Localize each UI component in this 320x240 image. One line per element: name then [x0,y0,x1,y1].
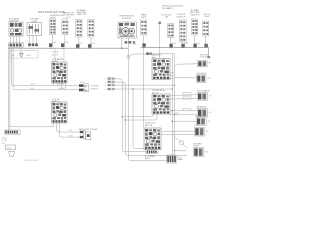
left vertical harness wire 3 [12,48,79,85]
svg-text:ENTRY: ENTRY [141,17,148,19]
riser right 1 [171,54,173,160]
bottom left box [6,145,16,150]
wire R2 to K3 a [170,110,197,112]
svg-text:0.5 L: 0.5 L [31,88,35,90]
svg-text:TO FRONT: TO FRONT [91,85,99,87]
strip T1 [168,24,174,38]
junction dot fan2 branch [125,119,126,120]
svg-text:START SYS: START SYS [77,13,87,16]
door lock assembly block [144,128,161,150]
svg-text:1 G: 1 G [2,143,5,145]
connector marks under J/B [9,43,24,47]
svg-text:0.5 W: 0.5 W [69,135,74,137]
svg-text:G 10: G 10 [205,152,208,154]
svg-text:0.5 L: 0.5 L [69,130,73,132]
connector mark C2 [61,43,65,47]
junction dot K6 [174,150,175,151]
strip T3 [192,19,198,35]
connector K1b [196,75,206,83]
wire switch2 pin c [60,123,80,137]
connector K6 [194,148,204,157]
svg-text:ENTRY: ENTRY [145,158,151,160]
junction dot K3b [174,114,175,115]
wire gauge tag K2b [183,97,191,99]
wire switch1 pin d [65,83,67,90]
wire to K6 upper [174,150,187,152]
wire C3 [78,37,80,44]
svg-text:3: 3 [105,82,106,84]
svg-text:FR DOOR: FR DOOR [200,54,208,56]
connector mark C4 [88,44,92,48]
connector K1 [198,61,208,67]
wire ground stub [20,48,22,50]
connector mark riser mid [158,22,161,25]
svg-text:G 7: G 7 [209,96,212,98]
wire gauge tag K3a [183,109,191,111]
connector K2 [197,93,207,101]
svg-text:LOCK LH: LOCK LH [200,57,208,59]
svg-text:0.5 L: 0.5 L [133,43,137,45]
wire T4 [205,36,207,44]
ground triangle [20,52,22,54]
wire to K4 [172,120,196,122]
svg-text:FRONT LH: FRONT LH [177,16,186,18]
svg-text:BACK DOOR LEFT SIDE: BACK DOOR LEFT SIDE [38,11,65,14]
svg-text:TOUCH SENSOR: TOUCH SENSOR [197,90,211,92]
junction dot K4 [172,121,173,122]
connector K5 [195,127,205,136]
connector K3 [197,109,207,117]
wire S5 drop [143,35,145,128]
bus wire right diagram [141,47,209,49]
connector mark S5 [142,43,145,46]
smart ECU block R2 [152,94,170,114]
svg-text:MOTOR LH: MOTOR LH [122,18,132,20]
svg-text:SW: SW [165,17,168,19]
wire gauge tag K2a [183,93,191,95]
svg-text:0.5 R: 0.5 R [184,43,189,45]
connector strip C1 [50,19,56,35]
svg-text:G 9: G 9 [208,121,211,123]
svg-text:8 2 1 5 1 – 3 0: 8 2 1 5 1 – 3 0 [25,160,39,162]
wire fan 1 [115,79,146,152]
strip T4 [203,21,209,36]
svg-text:DOOR LH: DOOR LH [91,89,99,91]
wire R2 to K2 b [170,98,197,100]
connector mark T2 [181,44,184,47]
grommet G2 [105,81,115,84]
bottom left connector strip [5,130,21,134]
grommet G3 [105,84,115,87]
wire motor pin 1 [121,38,123,48]
connector mark T4 [204,44,207,47]
connector mark T3 [193,44,196,47]
junction dot K3a [172,110,173,111]
wire R1 right a [170,72,174,74]
svg-text:5: 5 [105,89,106,91]
wire C4 [90,37,92,44]
bus wire left diagram [8,47,128,49]
wire riser mid [159,24,161,59]
wire switch2 pin b [57,123,80,132]
junction circle grommet [127,56,130,59]
svg-text:0.5 B: 0.5 B [80,82,84,84]
svg-text:ENTRY: ENTRY [194,146,200,148]
connector mark C1 [49,43,53,47]
connector mark T1 [169,44,172,47]
bus junction dots [50,48,122,49]
wire J/B pin 4 [19,36,21,44]
svg-text:ASSY LH: ASSY LH [145,124,153,127]
svg-text:G 6: G 6 [208,78,211,80]
svg-text:G 8: G 8 [209,112,212,114]
svg-text:B 1 4: B 1 4 [2,137,6,139]
ground box [10,51,38,58]
left vertical harness wire 5 [10,125,54,127]
svg-text:2: 2 [105,79,106,81]
wire switch1 pin c [61,83,63,90]
lock bottom connector [146,150,158,154]
wire R2 to K3 b [170,114,197,116]
wire relay pin 3 [36,36,38,44]
svg-text:0.5 G: 0.5 G [91,43,96,45]
wire grommet to right diagram [130,54,175,56]
wire fan 3 [128,55,166,160]
riser right 2 [173,54,175,156]
wire J/B pin 1 [10,36,12,44]
ECU block R1 [152,59,170,80]
strip T2 [180,20,187,42]
wire fan 2 [115,82,187,155]
wire fan 4 [133,89,146,148]
left vertical harness wire 4 [13,48,79,90]
svg-text:LH: LH [67,17,70,19]
wire T1 [170,38,172,45]
svg-text:BACK DOOR LOCK ASSY: BACK DOOR LOCK ASSY [79,128,99,131]
wire J/B pin 2 [13,36,15,44]
corner mark [207,56,210,58]
svg-text:0.5 B: 0.5 B [52,42,56,44]
door lock motor CN2 [80,130,91,139]
svg-text:0.5 B: 0.5 B [175,113,179,115]
bus2 right corner drop [208,48,210,56]
wire lock right 2 [161,133,194,135]
connector strip C4 [88,20,94,38]
connector marks under motor [125,41,136,44]
wire T2 [181,36,183,45]
connector marks relay [28,43,38,46]
svg-text:2 1 B: 2 1 B [7,148,12,150]
svg-text:W / O: W / O [178,157,183,159]
wire fan1 branch to R2 [122,114,153,117]
svg-text:3 0 B: 3 0 B [27,55,32,57]
svg-text:0.5 L: 0.5 L [79,43,83,45]
svg-text:DOOR LOCK: DOOR LOCK [195,125,206,127]
svg-text:G 5: G 5 [209,63,212,65]
junction block J/B [9,22,23,36]
wire C1 [52,35,54,44]
wire to K1b [174,77,196,79]
svg-text:START SYS: START SYS [190,13,200,16]
power window master switch S1 [52,62,68,83]
svg-text:0.5 G–B: 0.5 G–B [58,84,64,86]
svg-text:W / SMART: W / SMART [194,142,202,145]
wire switch1 pin a [53,83,55,86]
wire J/B pin 3 [16,36,18,44]
wire switch1 pin b [57,83,59,86]
wire to K1 [174,64,197,67]
grommet G1 [105,77,115,80]
wire long cross 1 [115,84,174,86]
grommet G4 [105,88,115,91]
svg-text:4 2 B: 4 2 B [2,140,7,142]
wire fan2 branch to R2 [125,114,157,120]
wire relay pin 2 [32,36,34,44]
svg-text:(W / SMART): (W / SMART) [162,7,173,10]
connector mark crossing [146,52,149,55]
relay R box [27,23,42,36]
ground symbol [9,152,15,157]
connector strip C2 [62,20,68,35]
connector strip C3 [76,20,82,38]
svg-text:LOCK SW LH: LOCK SW LH [197,73,208,75]
svg-text:4: 4 [105,85,106,87]
svg-text:0.5 W: 0.5 W [64,42,69,44]
wire R1 right c [170,77,174,79]
svg-text:G 9: G 9 [206,131,209,133]
wire through grommet [174,137,187,149]
wire T3 [194,35,196,44]
wire switch2 pin a [53,123,55,127]
svg-text:LIGHT: LIGHT [205,16,210,18]
wire relay pin 1 [29,36,31,44]
svg-text:0.5 B–W: 0.5 B–W [52,52,59,54]
left vertical harness wire 2 [7,48,9,130]
left vertical harness wire 1 [9,48,11,130]
connector mark C3 [76,44,80,48]
wire R1 right b [170,75,174,77]
connector K4 [196,118,206,125]
bus2 junction dots [143,47,195,48]
bottom right connector block [167,155,177,163]
power window switch rear S2 [52,102,68,123]
svg-text:ANTENNA LH: ANTENNA LH [197,106,208,109]
grommet circle right [179,141,184,146]
wire lock right 1 [161,130,194,132]
right strip S5 [141,20,147,35]
wire long cross 2 [115,88,172,90]
wire R2 to K2 a [170,93,197,96]
junction dot fan1 branch [122,116,123,117]
svg-text:0.5 G: 0.5 G [196,43,201,45]
power window motor M1 [118,22,137,38]
connector CN1 [79,84,89,92]
wire motor pin 2 [127,38,129,55]
wire C2 [64,35,66,44]
wire stubs bus to switch1 [54,48,56,62]
